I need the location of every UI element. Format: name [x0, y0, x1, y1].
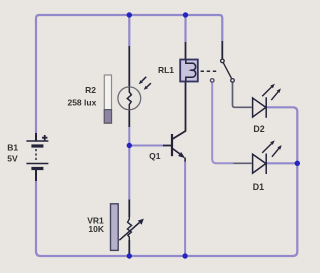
svg-text:RL1: RL1 [158, 65, 174, 75]
node base junction [127, 143, 132, 148]
LED D1 arrows [262, 140, 282, 156]
svg-text:B1: B1 [7, 143, 18, 153]
relay link dashed [201, 70, 218, 72]
battery B1 [26, 135, 48, 169]
svg-text:Q1: Q1 [149, 151, 161, 161]
wire top rail [40, 15, 223, 41]
transistor Q1 [172, 134, 185, 162]
potentiometer VR1 arrow [119, 219, 144, 241]
potentiometer VR1 [127, 217, 131, 240]
svg-text:5V: 5V [7, 154, 18, 164]
wire left rail upper [36, 15, 40, 133]
switch lever [223, 63, 231, 79]
transistor Q1 emitter arrow [178, 152, 185, 158]
svg-text:D2: D2 [253, 124, 264, 134]
svg-text:258 lux: 258 lux [67, 98, 96, 108]
LED D2 arrows [262, 84, 281, 100]
wire emitter down purple [184, 161, 186, 256]
LED D1 [253, 154, 267, 175]
wire switch right contact to D2 gray [233, 82, 252, 107]
node bottom VR1 [127, 253, 132, 258]
switch right contact [231, 79, 235, 83]
LDR R2 [118, 87, 141, 110]
wire LDR feed purple [128, 15, 130, 46]
VR1 slider [111, 204, 119, 251]
wire relay feed purple [184, 15, 186, 42]
wire LDR to base junction black [128, 110, 130, 128]
svg-text:D1: D1 [253, 182, 264, 192]
wire base purple part [130, 145, 164, 147]
wire D1 to right rail [266, 162, 297, 164]
wire base junction section purple [128, 127, 130, 200]
wire battery top stub [35, 133, 37, 141]
wire to D1 gray [233, 162, 251, 164]
LED D2 [253, 97, 267, 118]
wire to VR1 black [128, 200, 130, 218]
wire LDR feed black [128, 46, 130, 88]
switch left contact [210, 79, 214, 83]
wire relay feed black [185, 42, 187, 59]
wire battery bottom stub [35, 169, 37, 181]
wire switch left contact to D1 [212, 82, 233, 163]
node top relay [183, 12, 188, 17]
wire relay to collector [173, 82, 186, 140]
relay RL1 [180, 60, 198, 82]
wire left-bottom-right rail [36, 107, 297, 256]
node bottom emitter [182, 253, 187, 258]
svg-text:R2: R2 [85, 85, 96, 95]
switch pole contact [221, 59, 225, 63]
svg-text:10K: 10K [88, 224, 104, 234]
wire base black part [163, 145, 171, 147]
R2 level slider [104, 75, 111, 123]
wire VR1 to bottom black [128, 240, 130, 256]
LDR arrows [139, 77, 151, 90]
node top LDR [127, 12, 132, 17]
wire switch feed black [221, 41, 223, 59]
node D1 right [295, 161, 300, 166]
